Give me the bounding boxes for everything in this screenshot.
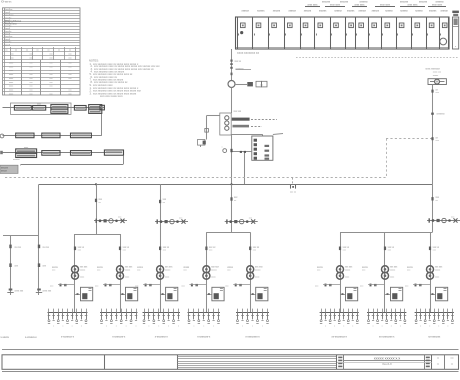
title text cell [344, 360, 432, 362]
breaker cells [241, 23, 246, 28]
secondary main breaker [191, 284, 193, 287]
svg-text:xxxxx: xxxxx [435, 269, 441, 271]
svg-text:xxxxx: xxxxx [255, 269, 261, 271]
transformer T1 winding [225, 116, 229, 120]
branch circuit [148, 309, 150, 313]
branch circuit [193, 309, 195, 313]
svg-text:x-xxxxxxx-x: x-xxxxxxx-x [197, 335, 211, 338]
branch circuit [173, 309, 175, 313]
branch circuit [131, 309, 133, 313]
branch circuit [126, 309, 128, 313]
incoming breaker dot [241, 31, 243, 33]
control dashed to motor feeder [386, 138, 434, 140]
drawout breaker chain [94, 220, 127, 222]
svg-text:x: x [193, 326, 194, 328]
branch circuit [420, 309, 422, 313]
control dashed vertical right [386, 139, 388, 178]
svg-text:XxxxXxx: XxxxXxx [4, 9, 13, 11]
drawout breaker chain [155, 221, 188, 223]
transformer primary [337, 266, 344, 273]
wire motif drop [74, 234, 76, 313]
branch circuit [116, 309, 118, 313]
wire feeder E tee [340, 232, 433, 234]
transformer secondary [382, 272, 389, 279]
motif breaker [384, 247, 386, 251]
branch circuit [58, 309, 60, 313]
transformer secondary [72, 272, 79, 279]
ct with label [230, 67, 232, 69]
svg-text:xxxxxxx: xxxxxxx [340, 2, 349, 4]
svg-text:XxxxXxxx: XxxxXxxx [4, 15, 14, 17]
row1 device 6 [100, 105, 104, 110]
branch circuit [163, 309, 165, 313]
row3 device 4 [104, 150, 123, 155]
transformer primary [382, 266, 389, 273]
equipment schedule table [3, 8, 81, 95]
svg-text:xxxxxx: xxxxxx [257, 9, 265, 12]
main 480V bus [39, 184, 433, 186]
distribution bus bar [143, 312, 181, 314]
svg-text:XxxxxXxxx: XxxxxXxxx [5, 23, 18, 26]
wire feeder B drop [96, 184, 98, 234]
branch circuit [352, 309, 354, 313]
svg-text:xxxx xxxx: xxxx xxxx [380, 5, 391, 7]
branch circuit [178, 309, 180, 313]
branch circuit [416, 309, 418, 313]
bus tie contact [290, 184, 292, 188]
branch circuit [218, 309, 220, 313]
secondary main breaker [105, 284, 107, 287]
wire feeder A tee [3, 235, 39, 237]
svg-text:XxxxX: XxxxX [4, 12, 11, 14]
row2 device 3 [71, 133, 92, 138]
svg-text:xxxx xxxxxxxx: xxxx xxxxxxxx [425, 68, 440, 70]
svg-text:xxxxxx: xxxxxx [273, 9, 281, 12]
branch circuit [198, 309, 200, 313]
svg-text:xxxxx: xxxxx [433, 75, 439, 77]
svg-text:x-xxxxx: x-xxxxx [1, 336, 10, 339]
svg-text:xxxxxx: xxxxxx [13, 159, 20, 161]
svg-text:xxxxxx: xxxxxx [347, 9, 355, 12]
svg-text:xxxx xxxx: xxxx xxxx [330, 5, 341, 7]
distribution bus bar [100, 312, 138, 314]
wire spare drop [10, 235, 12, 295]
wire meter tap [235, 84, 247, 86]
branch circuit [48, 309, 50, 313]
distribution bus bar [367, 312, 406, 314]
svg-text:xxxxx: xxxxx [390, 269, 396, 271]
wire motor feeder [432, 85, 434, 185]
motor breaker [431, 137, 433, 140]
svg-text:xxxxx: xxxxx [165, 269, 171, 271]
svg-text:XX-xxx-xx: XX-xxx-xx [1, 2, 12, 4]
arrow leader [273, 133, 283, 136]
svg-text:XxxxXx: XxxxXx [4, 42, 12, 44]
panelboard [346, 287, 358, 301]
relay boxes [256, 81, 261, 87]
motif breaker [249, 247, 251, 251]
row2 source circle [0, 134, 4, 138]
svg-text:xxxxxx: xxxxxx [400, 9, 408, 12]
branch circuit [400, 309, 402, 313]
svg-text:xxxxxx: xxxxxx [440, 9, 448, 12]
wire relay tap [232, 151, 252, 153]
svg-text:XxxxX: XxxxX [4, 44, 11, 46]
row1 device 5 [89, 105, 102, 109]
svg-text:XxxxX: XxxxX [4, 28, 11, 30]
row3 device 1 [16, 149, 37, 153]
branch circuit [339, 309, 341, 313]
panelboard [436, 287, 448, 301]
svg-text:xxxx xxx: xxxx xxx [43, 290, 53, 292]
branch circuit [67, 309, 69, 313]
branch circuit [81, 309, 83, 313]
wire row1 to row2 [101, 114, 103, 135]
svg-text:x: x [447, 326, 448, 328]
wire motif drop [430, 232, 432, 312]
svg-text:xx-xxxxxxxx-x: xx-xxxxxxxx-x [331, 335, 347, 338]
svg-text:xxx xxx: xxx xxx [255, 267, 263, 269]
svg-text:xxxxx: xxxxx [125, 269, 131, 271]
branch circuit [447, 309, 449, 313]
wire motif drop [384, 232, 386, 312]
svg-text:xxx xxx: xxx xxx [125, 267, 133, 269]
svg-text:XXXXX XXXXX X.X: XXXXX XXXXX X.X [374, 357, 401, 361]
svg-text:M: M [436, 80, 438, 84]
cable terminal [37, 289, 41, 291]
branch circuit [213, 309, 215, 313]
chain row 1 wire [3, 107, 105, 109]
wire to relay panel [232, 134, 263, 136]
svg-text:xxxxxx: xxxxxx [1, 167, 9, 169]
svg-text:xxxxxx: xxxxxx [415, 9, 423, 12]
wire main lower tee [206, 232, 250, 234]
row2 device 2 [42, 133, 60, 138]
surge arrester node [230, 63, 233, 65]
transformer primary [203, 266, 210, 273]
svg-text:xxxxxx: xxxxxx [372, 9, 380, 12]
branch circuit [321, 309, 323, 313]
branch circuit [86, 309, 88, 313]
branch circuit [452, 309, 454, 313]
svg-text:xxx xxx: xxx xxx [165, 267, 173, 269]
fused switch [38, 245, 40, 249]
svg-text:x: x [62, 326, 63, 328]
branch circuit [330, 309, 332, 313]
branch circuit [144, 309, 146, 313]
svg-text:xxxxx: xxxxx [80, 269, 86, 271]
svg-text:x: x [334, 326, 335, 328]
svg-text:xxx xxx: xxx xxx [435, 267, 443, 269]
svg-text:XxxxX: XxxxX [4, 39, 11, 41]
row1 device 3 [51, 105, 68, 109]
svg-text:x: x [242, 326, 243, 328]
svg-text:xxx xx: xxx xx [290, 192, 297, 194]
drawout breaker chain [427, 220, 460, 222]
branch circuit [188, 309, 190, 313]
switchgear lineup labels [305, 6, 320, 8]
control dashed drop to bus tie [292, 178, 294, 185]
relay panel K1 [252, 136, 273, 160]
svg-text:xxx xxxxxxx xxxx xx xxxxx xxxx: xxx xxxxxxx xxxx xx xxxxx xxxx xxxxx [93, 93, 137, 96]
svg-text:xxxx xxx: xxxx xxx [433, 72, 442, 74]
svg-text:x: x [148, 326, 149, 328]
svg-text:xxxx xxxx xxxxxx xxxx: xxxx xxxx xxxxxx xxxx [100, 96, 123, 98]
motif breaker [429, 247, 431, 251]
wire T1 secondary [231, 135, 233, 184]
svg-text:x-xxxxxxx-x: x-xxxxxxx-x [112, 335, 126, 338]
svg-text:xxxxx: xxxxx [211, 269, 217, 271]
wire main lower drop [231, 184, 233, 232]
svg-text:x: x [203, 326, 204, 328]
secondary main breaker [325, 284, 327, 287]
svg-text:xxx xx: xxx xx [235, 61, 242, 63]
pt tap [230, 60, 232, 62]
wire row3 return [123, 155, 125, 164]
secondary main breaker [235, 284, 237, 287]
svg-text:xxxxxx: xxxxxx [241, 9, 249, 12]
svg-text:x: x [325, 326, 326, 328]
svg-text:x: x [262, 326, 263, 328]
branch circuit [334, 309, 336, 313]
distribution bus bar [320, 312, 359, 314]
branch circuit [262, 309, 264, 313]
branch circuit [267, 309, 269, 313]
branch circuit [101, 309, 103, 313]
branch circuit [111, 309, 113, 313]
svg-text:x: x [438, 326, 439, 328]
branch circuit [53, 309, 55, 313]
row2 device 1 [16, 133, 34, 138]
svg-text:xxx xxx: xxx xxx [234, 111, 242, 113]
wire feeder B tee [75, 234, 120, 236]
motif breaker [339, 247, 341, 251]
transformer secondary [427, 272, 434, 279]
svg-text:x: x [429, 326, 430, 328]
svg-text:xxxxxxx: xxxxxxx [437, 114, 446, 116]
wire feeder C drop [160, 184, 162, 312]
branch circuit [237, 309, 239, 313]
branch circuit [434, 309, 436, 313]
panelboard [256, 287, 268, 301]
svg-text:x-xxxxxx-x: x-xxxxxx-x [25, 336, 37, 339]
svg-text:x: x [116, 326, 117, 328]
motor ct [431, 90, 433, 93]
branch circuit [257, 309, 259, 313]
svg-text:x-xxxxxxx-x: x-xxxxxxx-x [155, 335, 169, 338]
svg-text:xx xxx: xx xxx [43, 247, 50, 249]
breaker [38, 263, 40, 267]
chain row 1 group [11, 103, 72, 114]
branch circuit [62, 309, 64, 313]
branch circuit [247, 309, 249, 313]
ct element [247, 82, 253, 86]
branch circuit [325, 309, 327, 313]
branch circuit [443, 309, 445, 313]
branch circuit [373, 309, 375, 313]
panelboard [212, 287, 224, 301]
wire feeder A drop [38, 184, 40, 295]
svg-text:xxxxxx: xxxxxx [429, 9, 437, 12]
meter circle U1 [228, 81, 235, 88]
legend shaded box [0, 165, 18, 173]
svg-text:x: x [53, 326, 54, 328]
wire motif drop [250, 232, 252, 312]
breaker [9, 263, 11, 267]
svg-text:xxxxxx: xxxxxx [304, 9, 312, 12]
transformer primary [72, 266, 79, 273]
motif breaker [159, 247, 161, 251]
branch circuit [76, 309, 78, 313]
svg-text:XxxxXx: XxxxXx [4, 31, 12, 33]
bus label 480V [232, 118, 250, 121]
transformer primary [157, 266, 164, 273]
transformer T1 enclosure [220, 113, 231, 135]
distribution bus bar [48, 312, 88, 314]
control dashed line horizontal [5, 177, 386, 179]
svg-text:x: x [373, 326, 374, 328]
row3 device 2 [42, 151, 60, 156]
svg-text:xxxxx: xxxxx [1, 171, 8, 173]
branch circuit [242, 309, 244, 313]
svg-text:xxxx xxxx: xxxx xxxx [408, 5, 419, 7]
row1 device 2 [33, 106, 46, 111]
svg-text:x: x [252, 326, 253, 328]
main breaker 52 [230, 149, 232, 152]
motif breaker [74, 247, 76, 251]
branch circuit [438, 309, 440, 313]
right auxiliary cabinet [453, 17, 459, 49]
svg-text:x: x [400, 326, 401, 328]
ground symbol [198, 140, 205, 146]
svg-text:x: x [158, 326, 159, 328]
transformer secondary [247, 272, 254, 279]
motif breaker [119, 247, 121, 251]
svg-text:xxxxxxx: xxxxxxx [359, 2, 368, 4]
panelboard [166, 287, 178, 301]
transformer primary [247, 266, 254, 273]
svg-text:x: x [72, 326, 73, 328]
drawing border bottom [2, 349, 459, 351]
motor starter M1 [428, 79, 446, 85]
row3 device 3 [71, 151, 92, 156]
svg-text:x: x [168, 326, 169, 328]
svg-text:NOTES:: NOTES: [89, 58, 99, 62]
aux cabinet label [452, 11, 459, 13]
wire motif drop [340, 232, 342, 312]
svg-text:x: x [420, 326, 421, 328]
wire feeder E drop [432, 184, 434, 232]
panelboard [126, 287, 138, 301]
branch circuit [429, 309, 431, 313]
svg-text:xxx xxx: xxx xxx [80, 267, 88, 269]
switchgear enclosure [236, 17, 450, 49]
branch circuit [404, 309, 406, 313]
branch circuit [72, 309, 74, 313]
svg-text:xxx xxx: xxx xxx [390, 267, 398, 269]
svg-text:xxxxxx: xxxxxx [319, 9, 327, 12]
svg-text:x: x [213, 326, 214, 328]
sheet number cell [444, 355, 446, 370]
svg-text:xxxxxxx: xxxxxxx [419, 2, 428, 4]
branch circuit [168, 309, 170, 313]
svg-text:x: x [178, 326, 179, 328]
svg-text:3.: 3. [90, 93, 92, 96]
svg-text:xxxx xxx: xxxx xxx [15, 290, 25, 292]
chain row 2 wire [3, 135, 92, 137]
title block [2, 355, 459, 370]
svg-text:x: x [81, 326, 82, 328]
svg-text:x-xxxxxxx-x: x-xxxxxxx-x [61, 335, 75, 338]
transformer secondary [157, 272, 164, 279]
svg-text:x: x [343, 326, 344, 328]
secondary main breaker [415, 284, 417, 287]
svg-text:xxxxxx: xxxxxx [334, 9, 342, 12]
drawout breaker chain [225, 221, 258, 223]
svg-text:XXXX XXXXXXX XX: XXXX XXXXXXX XX [237, 52, 259, 55]
transformer primary [117, 266, 124, 273]
disconnect tick [231, 73, 233, 76]
branch circuit [377, 309, 379, 313]
secondary main breaker [370, 284, 372, 287]
branch circuit [348, 309, 350, 313]
motor disconnect [431, 113, 434, 115]
ground resistor [205, 129, 209, 133]
branch circuit [391, 309, 393, 313]
branch circuit [343, 309, 345, 313]
row1 device 4 [74, 106, 86, 111]
transformer secondary [337, 272, 344, 279]
revision column [343, 355, 345, 370]
distribution bus bar [188, 312, 221, 314]
branch circuit [425, 309, 427, 313]
svg-text:xxxx xxxx: xxxx xxxx [308, 5, 319, 7]
svg-text:xx-xxxxxxxx-x: xx-xxxxxxxx-x [379, 335, 395, 338]
transformer primary [427, 266, 434, 273]
page shadow line [2, 371, 459, 373]
chain row 3 wire [3, 152, 114, 154]
distribution bus bar [415, 312, 454, 314]
branch circuit [106, 309, 108, 313]
svg-text:xx-xxxxxxx: xx-xxxxxxx [428, 335, 441, 338]
svg-text:x: x [352, 326, 353, 328]
wire motif drop [206, 232, 208, 312]
motif breaker [205, 247, 207, 251]
branch circuit [382, 309, 384, 313]
wire main incoming [231, 49, 233, 81]
branch circuit [368, 309, 370, 313]
svg-text:xxxxxxx: xxxxxxx [400, 2, 409, 4]
branch circuit [136, 309, 138, 313]
svg-text:xxxxxxx: xxxxxxx [322, 2, 331, 4]
svg-text:xxxx xxxx: xxxx xxxx [432, 5, 443, 7]
svg-text:xxxxxx: xxxxxx [385, 9, 393, 12]
fused switch [9, 245, 11, 249]
branch circuit [121, 309, 123, 313]
branch circuit [252, 309, 254, 313]
panelboard [81, 287, 93, 301]
svg-text:xxxxx: xxxxx [345, 269, 351, 271]
cable terminal [9, 289, 13, 291]
branch circuit [203, 309, 205, 313]
wire grounding branch [207, 115, 220, 117]
svg-text:xxxxxx: xxxxxx [359, 9, 367, 12]
panelboard [391, 287, 403, 301]
wire to transformer [231, 88, 233, 114]
wire relay down [244, 153, 246, 184]
svg-text:x: x [126, 326, 127, 328]
wire motif drop [120, 234, 122, 313]
